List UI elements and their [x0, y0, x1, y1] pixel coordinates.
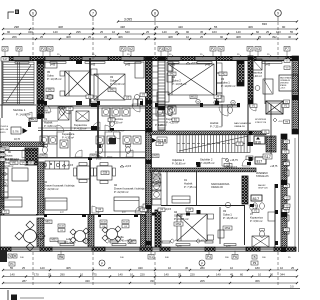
stair top wall right [150, 131, 266, 135]
svg-text:817: 817 [253, 196, 260, 201]
svg-text:140: 140 [164, 273, 169, 277]
svg-text:8: 8 [154, 11, 156, 15]
code label V1 [282, 150, 289, 154]
window label V2 [128, 47, 134, 52]
wardrobe strip 2 [217, 73, 223, 83]
wall pier bottom [40, 247, 52, 251]
svg-text:438: 438 [120, 25, 125, 29]
bottom long line [0, 288, 300, 290]
wall pier top [70, 57, 82, 61]
svg-text:P4: P4 [207, 255, 211, 259]
party wall lower [146, 132, 152, 247]
svg-text:P: P [201, 261, 203, 265]
duct column [242, 176, 248, 204]
svg-text:340: 340 [138, 266, 143, 270]
svg-text:Kupaonica: Kupaonica [62, 132, 75, 136]
svg-text:45: 45 [230, 273, 234, 277]
bedroom partition right [216, 61, 218, 105]
left exterior wall lower [0, 150, 1, 251]
svg-text:P: 22,90 m²: P: 22,90 m² [44, 187, 59, 191]
svg-text:VM1: VM1 [96, 156, 101, 158]
svg-text:p=90: p=90 [50, 65, 56, 67]
svg-text:STANJE 2/6: STANJE 2/6 [256, 175, 269, 178]
svg-text:45: 45 [185, 266, 189, 270]
svg-text:90: 90 [220, 35, 224, 39]
svg-text:340: 340 [28, 30, 33, 34]
code label V1 [246, 156, 253, 160]
svg-text:205: 205 [200, 279, 205, 283]
svg-text:P: 3,80 m²: P: 3,80 m² [44, 124, 57, 128]
code label V3 [140, 93, 147, 97]
svg-text:P6: P6 [233, 255, 237, 259]
svg-text:25: 25 [178, 273, 182, 277]
bottom label P5 [58, 255, 64, 260]
svg-text:10: 10 [168, 266, 172, 270]
G26 label G26 [101, 171, 109, 175]
upper wall of lower rooms right [150, 168, 256, 172]
S18 arrow [152, 138, 157, 143]
appliance boxes row 2 [40, 136, 48, 144]
svg-text:25: 25 [108, 266, 112, 270]
dimension line row 3 [3, 38, 297, 40]
door swing [249, 104, 256, 111]
wall column A [37, 60, 44, 118]
svg-text:S17: S17 [3, 57, 8, 61]
axis line [154, 22, 156, 59]
svg-text:330: 330 [150, 279, 155, 283]
door jamb [196, 162, 200, 165]
door jamb [44, 214, 47, 217]
svg-text:10: 10 [230, 266, 234, 270]
label T1 [0, 158, 5, 161]
wall pier top [144, 57, 167, 61]
svg-text:ORAVA 2/6: ORAVA 2/6 [211, 186, 224, 189]
wall pier bottom [0, 247, 11, 251]
label V2 [0, 153, 5, 156]
dark mark left edge [0, 250, 7, 262]
svg-text:405: 405 [66, 266, 71, 270]
shaft rungs [153, 59, 159, 61]
code label V1 [252, 209, 259, 213]
svg-text:V2: V2 [48, 47, 52, 51]
VM1 c B6 [28, 161, 34, 165]
code label V4 [186, 208, 193, 212]
bottom label V1 [148, 255, 154, 260]
door jamb [134, 214, 138, 217]
living divider x90 [89, 158, 91, 214]
code label V4 [66, 107, 73, 111]
code label F1 [2, 210, 9, 214]
label V4 [122, 225, 129, 228]
code label B1 [172, 118, 179, 122]
wall pier bottom [205, 247, 215, 251]
svg-text:45: 45 [200, 30, 204, 34]
wall pier top [249, 57, 256, 61]
svg-text:V1: V1 [149, 255, 153, 259]
code label V3 [236, 142, 243, 146]
svg-text:p=90: p=90 [90, 65, 96, 67]
dimension line row 2 [3, 33, 297, 35]
svg-text:P: 30,85 m²: P: 30,85 m² [172, 161, 186, 165]
VM1 a VM1 [10, 161, 18, 165]
door swing [135, 206, 142, 213]
elevator shaft [266, 101, 283, 114]
svg-text:MK2: MK2 [46, 221, 52, 224]
stair end line [0, 104, 36, 106]
MS3 a MS3 [50, 238, 58, 242]
WC and sinks middle band [60, 109, 65, 116]
window label 27 [2, 47, 8, 52]
right rail line [298, 56, 300, 252]
code label MK2 [30, 118, 37, 122]
label S [8, 254, 12, 258]
svg-text:P2: P2 [248, 47, 252, 51]
svg-text:p=90: p=90 [265, 65, 271, 67]
code label V4 [156, 142, 163, 146]
svg-text:25: 25 [258, 35, 262, 39]
window label P2 [40, 47, 46, 52]
door swing [163, 107, 172, 116]
label V4 [100, 225, 107, 228]
svg-text:266: 266 [12, 35, 17, 39]
door jamb [140, 101, 143, 105]
dark wall stub [28, 122, 31, 127]
wall line x248 [247, 104, 249, 146]
section marker B top-left [8, 12, 14, 19]
cabinet soba1 [218, 230, 224, 238]
svg-text:163: 163 [276, 30, 281, 34]
door swing [105, 125, 112, 132]
svg-text:P: 13,65 m²: P: 13,65 m² [172, 82, 187, 86]
svg-text:60: 60 [256, 30, 260, 34]
window label P2 [120, 47, 126, 52]
code label V1 [250, 104, 257, 108]
svg-text:60: 60 [240, 273, 244, 277]
S circle 05 [47, 94, 52, 99]
SM2 05 SM2 [46, 88, 54, 92]
right exterior wall lower [281, 134, 287, 247]
svg-text:S/11+36: S/11+36 [0, 129, 9, 131]
grid axis bubble 6 [30, 10, 37, 17]
svg-text:220: 220 [140, 273, 145, 277]
elevation mark [186, 62, 190, 64]
svg-text:90: 90 [270, 273, 274, 277]
svg-text:GRUP 1/26: GRUP 1/26 [258, 188, 268, 190]
windows in top wall [13, 56, 30, 58]
dining table set 2 [97, 166, 112, 180]
svg-text:29: 29 [155, 25, 159, 29]
SM2 b SM2 [219, 72, 227, 76]
bottom left detail [7, 290, 9, 300]
svg-text:P: 13,30 m²: P: 13,30 m² [110, 82, 125, 86]
svg-text:140: 140 [216, 273, 221, 277]
grid axis bubble 9 [275, 10, 282, 17]
VM1 b V4 [20, 161, 26, 165]
svg-text:408: 408 [168, 35, 173, 39]
shaft east wall [270, 104, 272, 156]
svg-text:01: 01 [184, 178, 187, 182]
window label V2 [47, 47, 53, 52]
wall pier bottom [274, 247, 296, 251]
svg-text:V2: V2 [166, 47, 170, 51]
S17 label S17 [263, 154, 272, 159]
MS2 soba2 MS2 [174, 222, 183, 226]
code label VH1 [2, 146, 9, 150]
code label V4 [158, 208, 165, 212]
door swing [249, 205, 256, 212]
door jamb [200, 103, 203, 107]
edge stack label TM [284, 120, 290, 123]
svg-text:7: 7 [92, 11, 94, 15]
bedroom lower wall right [155, 104, 240, 106]
svg-text:10: 10 [186, 35, 190, 39]
kitchen wall left flat [0, 150, 38, 152]
svg-text:MS3: MS3 [52, 239, 58, 242]
window label P2 [247, 47, 253, 52]
svg-text:MS2: MS2 [176, 222, 182, 226]
svg-text:+16,75: +16,75 [230, 159, 238, 162]
svg-text:SPUŠTENI: SPUŠTENI [255, 118, 266, 121]
door swing [44, 105, 51, 112]
left flat kitchen line [0, 159, 38, 161]
svg-text:836: 836 [262, 22, 267, 26]
svg-text:P: 16,35 m²: P: 16,35 m² [223, 216, 238, 220]
dimension line row 1 [3, 28, 297, 30]
bath partition right [264, 60, 266, 104]
balcony round table bottom-left [24, 230, 37, 243]
svg-text:+0,15: +0,15 [165, 207, 172, 211]
loggia table 1 [75, 231, 86, 242]
shower box 1 [58, 107, 69, 120]
window label P3 [158, 47, 164, 52]
bath east wall [274, 184, 276, 247]
svg-text:9: 9 [277, 11, 279, 15]
code label V1 [282, 104, 289, 108]
balcony wall left [0, 214, 38, 216]
svg-text:10: 10 [258, 273, 262, 277]
svg-text:IZVEDENO: IZVEDENO [256, 173, 268, 175]
svg-text:392: 392 [272, 35, 277, 39]
VK circles [196, 99, 200, 103]
edge stack label V3 [284, 184, 290, 187]
svg-text:p=90: p=90 [170, 65, 176, 67]
LI23 LI23 [224, 164, 232, 167]
shelf [45, 62, 57, 68]
left exterior wall hatch [0, 152, 4, 215]
bedroom top wall bottom-right [161, 205, 245, 207]
loggia chairs [70, 229, 76, 235]
svg-text:P3: P3 [159, 47, 163, 51]
bottom dimension row 1 [3, 269, 297, 271]
svg-text:25: 25 [40, 35, 44, 39]
elevation mark [160, 208, 164, 210]
code label UL [262, 130, 269, 134]
svg-text:408: 408 [66, 35, 71, 39]
MS2 soba1 MS2 [223, 226, 232, 230]
svg-text:Kupaonica: Kupaonica [250, 215, 263, 219]
svg-text:10: 10 [280, 266, 284, 270]
svg-text:40: 40 [288, 35, 292, 39]
svg-text:P2: P2 [121, 47, 125, 51]
night stand b [91, 96, 97, 102]
svg-text:Hodnik: Hodnik [44, 120, 53, 124]
wall column E [237, 60, 244, 86]
living top wall left [38, 157, 145, 159]
right edge risers [284, 160, 289, 166]
label V4 [58, 229, 65, 232]
bottom label P6 [232, 255, 238, 260]
wall pier top [286, 57, 296, 61]
svg-text:+18,75: +18,75 [270, 165, 278, 168]
door jamb [110, 128, 114, 131]
axis line [32, 22, 34, 59]
label VT [0, 148, 5, 151]
svg-text:P2: P2 [41, 47, 45, 51]
wall segment x42 [41, 118, 43, 142]
shaft column x155 [155, 210, 161, 247]
loggia pier b [141, 215, 146, 247]
hodnik-kupaonica divider [70, 106, 72, 131]
bottom dimension row 2 [3, 276, 297, 278]
party wall upper left leaf [146, 57, 153, 132]
svg-text:406: 406 [248, 25, 253, 29]
loggia wall left apt [36, 214, 146, 216]
svg-text:140: 140 [10, 273, 15, 277]
elevation mark [226, 166, 230, 168]
edge label V3 [284, 66, 290, 69]
right label B [252, 255, 257, 259]
svg-text:55: 55 [10, 266, 14, 270]
svg-text:816: 816 [255, 140, 261, 144]
svg-text:295: 295 [76, 30, 81, 34]
bed soba2 bottom [177, 214, 207, 241]
bath partition [109, 108, 111, 130]
side table [60, 71, 65, 76]
svg-text:P: 4,30 m²: P: 4,30 m² [74, 126, 87, 130]
table left flat [12, 168, 28, 181]
overall dimension line 3.095 [118, 21, 297, 23]
wardrobe r2 [167, 73, 173, 82]
svg-text:180: 180 [255, 266, 260, 270]
code label V4 [214, 95, 221, 99]
wardrobe strip 1 [217, 63, 223, 73]
right exterior wall upper [292, 56, 299, 134]
window label V2 [165, 47, 171, 52]
wall between left flat and apt1 [38, 162, 45, 215]
door swing [22, 150, 30, 158]
bottom label P4 [206, 255, 212, 260]
door jamb [37, 116, 41, 119]
svg-text:140: 140 [53, 30, 58, 34]
edge label V3 [284, 59, 290, 62]
svg-text:MS2: MS2 [191, 96, 197, 99]
grid axis bubble 8 [152, 10, 159, 17]
svg-text:Stubište 1: Stubište 1 [13, 108, 26, 112]
loggia table 2 [107, 229, 118, 240]
loggia pier west [37, 218, 44, 247]
window label P2 [16, 47, 22, 52]
door swing [62, 106, 70, 114]
edge stack label V1 [284, 100, 290, 103]
edge label V3 [284, 196, 290, 199]
svg-text:B.18: B.18 [123, 222, 128, 224]
svg-text:540: 540 [125, 30, 130, 34]
wall pier bottom [160, 247, 170, 251]
sanitary band partitions [56, 132, 58, 157]
bottom circle mark P [99, 260, 105, 266]
svg-text:P: P [101, 261, 103, 265]
code label LI2 [86, 95, 93, 99]
svg-text:10: 10 [130, 273, 134, 277]
svg-text:P2: P2 [211, 47, 215, 51]
staircase 2 (right) [177, 135, 250, 153]
door swing [126, 150, 133, 157]
axis line [92, 252, 94, 287]
edge stack label UL [284, 162, 290, 165]
svg-text:p=90: p=90 [205, 65, 211, 67]
svg-text:298: 298 [14, 25, 19, 29]
svg-text:408: 408 [58, 25, 63, 29]
bathroom top right fixtures [252, 59, 262, 70]
bottom radiators [60, 244, 74, 246]
svg-text:P: 4,30 m²: P: 4,30 m² [62, 135, 74, 139]
door swing [222, 158, 230, 166]
svg-text:P: 7,35 m²: P: 7,35 m² [210, 124, 223, 128]
bed soba 05 [65, 71, 90, 96]
svg-text:NADOGRADNJA: NADOGRADNJA [234, 122, 251, 125]
side table 2 [60, 91, 65, 96]
top exterior wall [2, 56, 296, 58]
svg-text:V2: V2 [129, 47, 133, 51]
svg-text:VM1: VM1 [12, 162, 18, 165]
svg-text:Izdjelište 2: Izdjelište 2 [172, 158, 185, 162]
wardrobe soba3 [135, 62, 144, 78]
window label V2 [218, 47, 224, 52]
sofa 2 [114, 197, 139, 211]
code label V4 [96, 208, 103, 212]
svg-text:55: 55 [214, 25, 218, 29]
label B.18 [100, 220, 107, 223]
label S18 [157, 137, 167, 143]
band bottom wall [38, 157, 145, 159]
svg-text:B: B [254, 255, 256, 259]
code label VM2 [152, 154, 159, 158]
svg-text:V2: V2 [219, 47, 223, 51]
svg-text:Ø110: Ø110 [96, 159, 102, 161]
svg-text:ORAVA 2/6: ORAVA 2/6 [234, 125, 246, 128]
code label LI2 [124, 96, 131, 100]
small wall [43, 120, 58, 122]
svg-text:408: 408 [236, 35, 241, 39]
night stand a [91, 69, 97, 75]
svg-text:6: 6 [32, 11, 34, 15]
svg-text:90: 90 [7, 30, 11, 34]
svg-text:140: 140 [236, 30, 241, 34]
sofa 1 [45, 198, 67, 210]
svg-text:287: 287 [22, 279, 27, 283]
bottom circle mark P2 [199, 260, 205, 266]
axis line [277, 252, 279, 287]
svg-text:V3: V3 [256, 47, 260, 51]
svg-text:140: 140 [118, 273, 123, 277]
loggia diamond marks [82, 239, 86, 243]
wall pier bottom [92, 247, 105, 251]
wall pier top [2, 57, 13, 61]
svg-text:+18,75: +18,75 [280, 88, 285, 90]
svg-text:01: 01 [44, 117, 47, 121]
shower box 2 [76, 111, 89, 121]
stair landing wall [266, 136, 276, 152]
